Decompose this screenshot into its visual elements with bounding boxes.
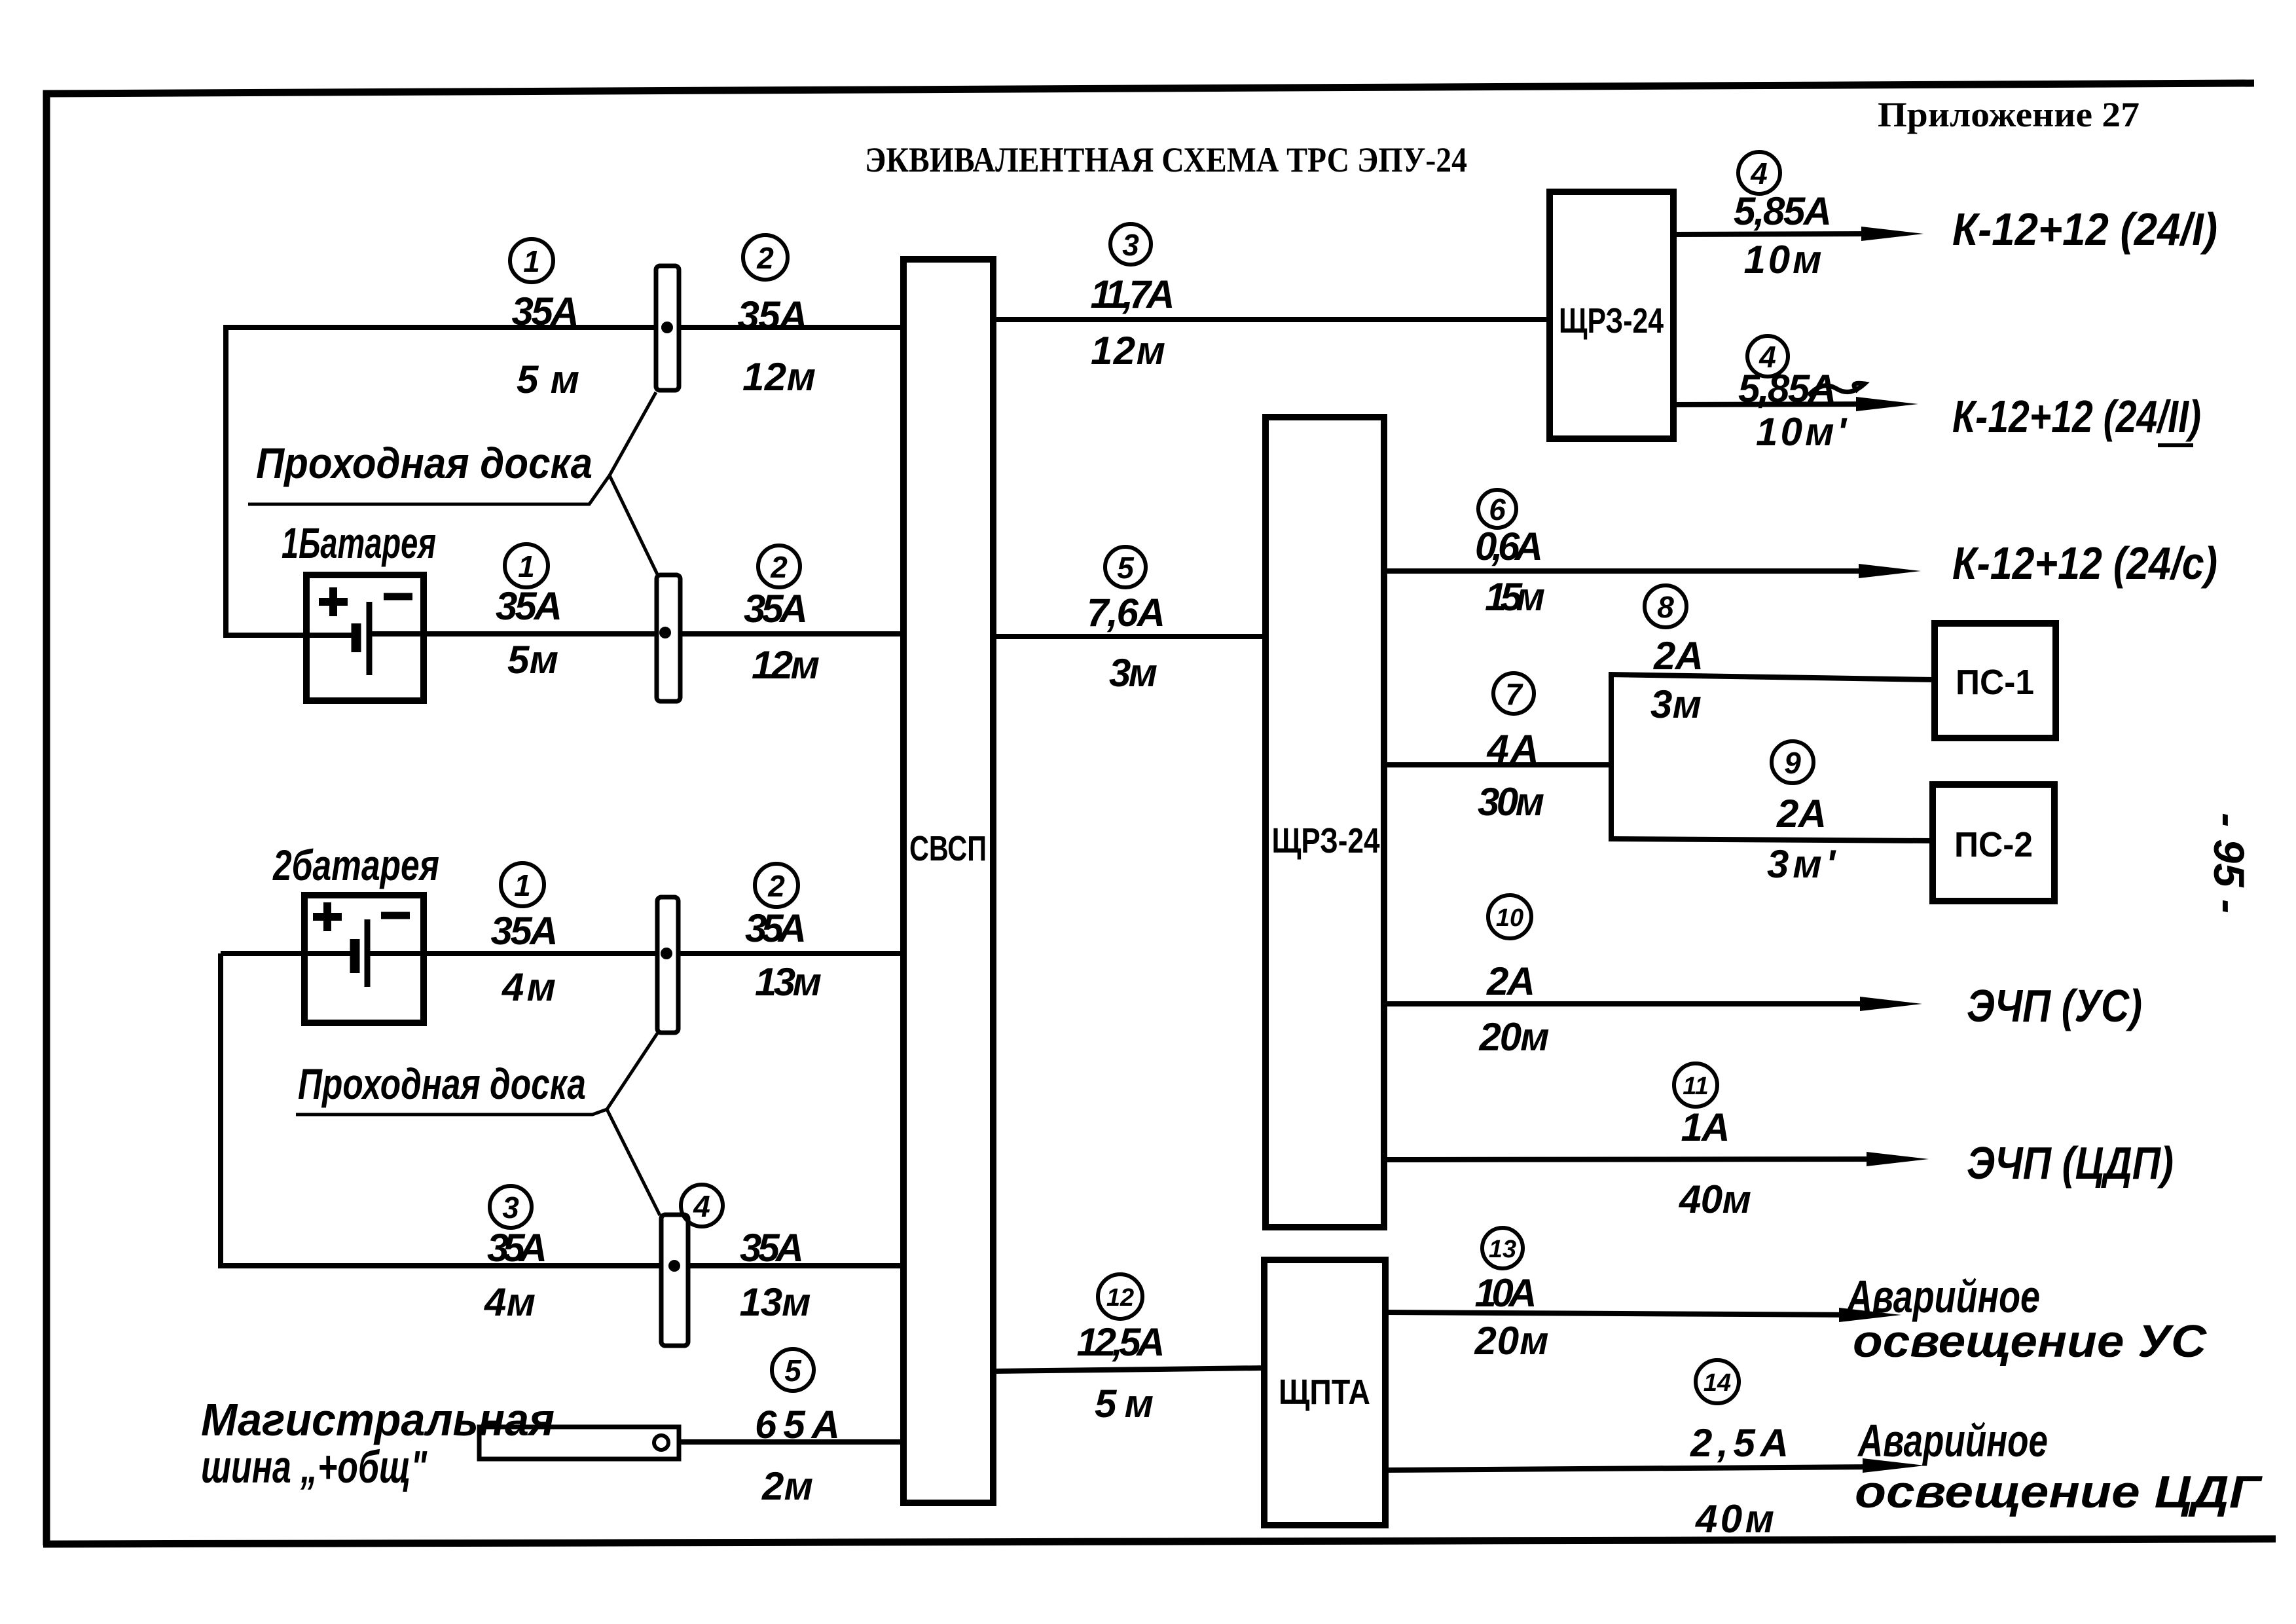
value 4А / 30М (feeder 7) (1478, 727, 1544, 824)
node СВСП (rectifier cabinet) (903, 259, 993, 1503)
value 35А / 4м (battery B2 row) (491, 909, 558, 1009)
svg-text:ЭКВИВАЛЕНТНАЯ СХЕМА ТРС ЭПУ-24: ЭКВИВАЛЕНТНАЯ СХЕМА ТРС ЭПУ-24 (865, 140, 1467, 179)
svg-text:2,5А: 2,5А (1690, 1421, 1789, 1465)
panel ЩРЗ-24 (main distribution) (1266, 417, 1384, 1227)
svg-text:2: 2 (756, 241, 774, 275)
net label Аварийное освещение ЦДГ (1855, 1415, 2263, 1517)
svg-text:1: 1 (514, 868, 531, 902)
svg-text:ЩРЗ-24: ЩРЗ-24 (1272, 821, 1380, 860)
svg-text:4: 4 (693, 1189, 710, 1223)
wire: battery B1 loop to СВСП (branch 1 top) (226, 327, 903, 635)
svg-text:4м: 4м (501, 965, 556, 1009)
fuse F2 (branch 2) (657, 575, 680, 701)
value 7,6А / 3М (feeder 5) (1087, 591, 1165, 695)
svg-text:11,7А: 11,7А (1091, 272, 1175, 316)
svg-text:10А: 10А (1475, 1271, 1537, 1315)
value 2А / 3М (branch 8) (1650, 634, 1704, 726)
svg-text:12,5А: 12,5А (1077, 1320, 1165, 1364)
circled 8 (ПС-1 branch) (1645, 585, 1686, 627)
value 35А / 12М (battery row right) (744, 587, 820, 687)
svg-text:5м: 5м (507, 638, 558, 682)
svg-text:1А: 1А (1681, 1105, 1730, 1149)
svg-text:13: 13 (1489, 1236, 1516, 1263)
circled 4 (battery B2 lower right) (681, 1185, 723, 1227)
svg-text:8: 8 (1657, 590, 1674, 624)
value 35А / 13М (battery B2 lower right) (740, 1226, 811, 1324)
circled 4 (24/II) (1747, 336, 1788, 377)
svg-text:35А: 35А (740, 1226, 804, 1270)
circled 13 (авар. УС feeder) (1482, 1228, 1523, 1268)
bus bar „+общ" (479, 1427, 679, 1459)
svg-text:3: 3 (1122, 228, 1139, 262)
circled 2 (branch 2 battery row) (758, 545, 800, 587)
svg-text:3м': 3м' (1767, 842, 1836, 886)
svg-text:35А: 35А (738, 293, 808, 337)
value 5,85А / 10М (24/I) (1734, 189, 1832, 282)
load box ПС-2 (1933, 784, 2054, 901)
value 1А / 40М (feeder 11) (1679, 1105, 1751, 1221)
value 35А / 12м (branch 2 top) (738, 293, 816, 399)
svg-text:1Батарея: 1Батарея (282, 519, 436, 567)
callout: Проходная доска (lower) (296, 1033, 660, 1215)
svg-text:2А: 2А (1486, 959, 1535, 1003)
svg-text:освещение ЦДГ: освещение ЦДГ (1855, 1466, 2263, 1517)
value 2А / 20М (feeder 10) (1479, 959, 1550, 1059)
svg-text:0,6А: 0,6А (1475, 525, 1543, 568)
svg-text:15м: 15м (1485, 575, 1545, 619)
svg-text:35А: 35А (487, 1226, 547, 1270)
fuse F1 (branch 1 top) (656, 266, 679, 390)
value 2,5А / 40М (feeder 14) (1690, 1421, 1789, 1541)
net label К-12+12 (24/I) (1952, 204, 2217, 255)
value 65А / 2м (bus branch) (755, 1403, 840, 1508)
svg-text:5м: 5м (1095, 1382, 1154, 1426)
svg-text:ЭЧП (ЦДП): ЭЧП (ЦДП) (1967, 1137, 2174, 1189)
circled 14 (авар. ЦДГ feeder) (1696, 1360, 1739, 1403)
wire: ЩРЗ-24 main to ПС junction (branch 7) (1384, 762, 1611, 767)
svg-text:9: 9 (1784, 746, 1801, 780)
wire: СВСП to ЩРЗ-24 feeders (branch 3, 11.7A) (993, 317, 1550, 322)
svg-text:2А: 2А (1776, 792, 1827, 836)
circled 1 (battery B2 row) (501, 863, 544, 906)
svg-text:Проходная доска: Проходная доска (256, 439, 592, 487)
wire: ЩПТА to Аварийное освещение ЦДГ (branch 14) (1385, 1458, 1925, 1473)
svg-text:5: 5 (1117, 551, 1135, 585)
svg-text:2батарея: 2батарея (272, 841, 439, 889)
wire: СВСП to ЩПТА (branch 12) (993, 1368, 1264, 1371)
wire: battery B1 to СВСП (branch 2) (369, 631, 903, 637)
svg-text:35А: 35А (491, 909, 558, 953)
panel ЩРЗ-24 (24V feeders) (1550, 192, 1673, 439)
svg-text:ПС-1: ПС-1 (1956, 663, 2034, 702)
svg-text:10: 10 (1496, 904, 1523, 932)
value 2А / 3М' (branch 9) (1767, 792, 1836, 886)
circled 3 (battery B2 lower row) (490, 1186, 532, 1228)
value 35А / 4М (battery B2 lower) (484, 1226, 547, 1324)
svg-text:12м: 12м (1091, 329, 1165, 373)
svg-text:- 95 -: - 95 - (2205, 813, 2253, 913)
svg-text:7,6А: 7,6А (1087, 591, 1165, 635)
svg-text:2: 2 (767, 869, 785, 903)
wire: battery B2 to СВСП (branch 1 lower) (221, 951, 350, 956)
fuse F4 (battery B2 lower) (661, 1215, 688, 1346)
svg-text:СВСП: СВСП (909, 829, 987, 868)
svg-text:6: 6 (1489, 492, 1506, 526)
net label К-12+12 (24/с) (1952, 538, 2217, 589)
circled 6 (0.6A feeder) (1478, 490, 1516, 528)
svg-text:3м: 3м (1650, 682, 1702, 726)
svg-text:5: 5 (784, 1354, 802, 1388)
svg-text:К-12+12 (24/II): К-12+12 (24/II) (1952, 391, 2201, 442)
circled 3 (11.7A feeder) (1110, 224, 1151, 265)
circled 2 (branch 2 top) (743, 235, 788, 280)
svg-text:2м: 2м (761, 1464, 813, 1508)
wire: battery B2 loop to СВСП (branch 3) (221, 953, 903, 1266)
wire: ЩРЗ-24 main to ЭЧП (ЦДП) (branch 11) (1384, 1152, 1929, 1166)
wire: СВСП to ЩРЗ-24 main (branch 5, 7.6A) (993, 634, 1266, 639)
svg-text:13м: 13м (755, 960, 822, 1004)
svg-text:3м: 3м (1109, 651, 1157, 695)
svg-text:Аварийное: Аварийное (1857, 1415, 2048, 1466)
svg-text:30м: 30м (1478, 780, 1544, 824)
panel ЩПТА (1264, 1260, 1385, 1525)
svg-text:К-12+12 (24/с): К-12+12 (24/с) (1952, 538, 2217, 589)
value 5,85А / 10М (24/II, scribbled) (1738, 367, 1865, 454)
svg-text:Аварийное: Аварийное (1846, 1271, 2040, 1322)
wire: ЩРЗ-24 feeders to К-12+12 (24/II) (1673, 397, 1918, 411)
svg-text:1: 1 (518, 549, 535, 583)
svg-text:шина „+общ": шина „+общ" (201, 1441, 428, 1492)
svg-text:2А: 2А (1653, 634, 1704, 678)
wire: bus bar to СВСП (branch 5) (679, 1439, 903, 1445)
value 0,6А / 15М (feeder 6) (1475, 525, 1545, 619)
svg-text:Приложение 27: Приложение 27 (1878, 95, 2140, 134)
wire: ЩПТА to Аварийное освещение УС (branch 13) (1385, 1308, 1901, 1322)
circled 5 (bus branch) (772, 1349, 814, 1391)
battery B2 (304, 895, 424, 1023)
svg-text:ЩПТА: ЩПТА (1279, 1373, 1370, 1412)
fuse F3 (battery B2 upper) (657, 897, 678, 1033)
circled 2 (battery B2 row right) (755, 864, 798, 907)
svg-text:3: 3 (502, 1190, 519, 1225)
svg-text:20м: 20м (1474, 1319, 1549, 1363)
svg-text:35А: 35А (496, 584, 562, 628)
svg-text:К-12+12 (24/I): К-12+12 (24/I) (1952, 204, 2217, 255)
wire: ЩРЗ-24 main to К-12+12 (24/с) (branch 6) (1384, 564, 1921, 578)
svg-text:40м: 40м (1679, 1177, 1751, 1221)
wire: junction to ПС-1 (branch 8) (1609, 674, 1935, 680)
svg-text:4м: 4м (484, 1280, 536, 1324)
svg-text:Проходная доска: Проходная доска (298, 1060, 586, 1108)
circled 10 (ЭЧП УС feeder) (1488, 895, 1531, 938)
svg-text:10м: 10м (1744, 238, 1822, 282)
svg-text:13м: 13м (740, 1280, 811, 1324)
circled 4 (24/I) (1738, 152, 1780, 194)
svg-text:освещение УС: освещение УС (1853, 1316, 2208, 1367)
svg-text:5,85А: 5,85А (1734, 189, 1832, 233)
value 12,5А / 5м (feeder 12) (1077, 1320, 1165, 1426)
svg-text:7: 7 (1505, 677, 1523, 711)
circled 12 (ЩПТА feeder) (1098, 1274, 1142, 1319)
svg-text:2: 2 (770, 550, 788, 584)
svg-text:1: 1 (523, 244, 540, 278)
net label К-12+12 (24/II) (1952, 391, 2201, 445)
svg-text:14: 14 (1704, 1369, 1731, 1397)
svg-text:11: 11 (1683, 1073, 1708, 1100)
svg-text:ЭЧП (УС): ЭЧП (УС) (1967, 980, 2142, 1031)
svg-text:Магистральная: Магистральная (201, 1394, 555, 1445)
svg-text:10м': 10м' (1756, 410, 1848, 454)
load box ПС-1 (1935, 623, 2056, 738)
callout: Проходная доска (upper) (248, 392, 657, 574)
svg-text:20м: 20м (1479, 1015, 1550, 1059)
value 35А / 5м (battery row) (496, 584, 562, 682)
net label ЭЧП (ЦДП) (1967, 1137, 2174, 1189)
net label ЭЧП (УС) (1967, 980, 2142, 1031)
value 10А / 20М (feeder 13) (1474, 1271, 1549, 1363)
svg-text:12м: 12м (752, 643, 820, 687)
svg-text:ПС-2: ПС-2 (1954, 825, 2033, 864)
circled 11 (ЭЧП ЦДП feeder) (1674, 1063, 1717, 1107)
svg-text:35А: 35А (744, 587, 808, 631)
wire: ЩРЗ-24 main to ЭЧП (УС) (branch 10) (1384, 997, 1922, 1011)
wire: ЩРЗ-24 feeders to К-12+12 (24/I) (1673, 227, 1923, 241)
svg-text:12: 12 (1106, 1284, 1134, 1312)
circled 5 (7.6A feeder) (1105, 547, 1146, 587)
svg-text:65А: 65А (755, 1403, 840, 1447)
circled 1 (branch 1 battery row) (505, 544, 548, 587)
svg-text:40м: 40м (1695, 1497, 1774, 1541)
svg-text:ЩРЗ-24: ЩРЗ-24 (1559, 301, 1664, 341)
svg-text:4А: 4А (1487, 727, 1539, 771)
circled 7 (4A feeder) (1493, 673, 1534, 714)
value 35А / 13м (battery B2 row right) (745, 906, 822, 1004)
svg-text:4: 4 (1750, 157, 1768, 191)
wire: junction to ПС-2 (branch 9) (1609, 839, 1933, 841)
svg-text:35А: 35А (745, 906, 807, 950)
battery B1 (306, 575, 424, 701)
circled 9 (ПС-2 branch) (1772, 741, 1813, 783)
svg-text:12м: 12м (742, 355, 816, 399)
value 35А / 5м (branch 1 top) (512, 289, 580, 401)
value 11,7А / 12М (feeder 3) (1091, 272, 1175, 373)
net label Аварийное освещение УС (1846, 1271, 2207, 1367)
bus bar label: Магистральная шина „+общ" (201, 1394, 555, 1492)
circled 1 (branch 1 top) (510, 239, 553, 282)
junction: ПС splitter (1609, 674, 1614, 839)
wire: battery B2 right to СВСП (367, 951, 903, 956)
svg-text:35А: 35А (512, 289, 579, 333)
